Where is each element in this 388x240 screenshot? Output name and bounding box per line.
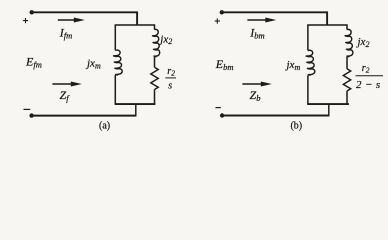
plus polarity mark (circuit b) [215,18,220,23]
node A1 (top-left terminal dot, circuit a) [30,10,34,14]
node A2 (bottom-left terminal dot, circuit a) [29,113,33,117]
wire right branch lower (circuit b) [346,91,348,104]
current arrow I_fm [58,18,85,23]
wire drop from rail to bottom wire (circuit a) [135,104,137,115]
wire left branch upper (circuit a) [114,25,116,50]
minus polarity mark (circuit b) [216,107,221,109]
svg-text:s: s [168,81,172,92]
plus polarity mark (circuit a) [23,18,28,23]
wire bottom (circuit b) [222,115,329,117]
inductor jx_2 (circuit b) [345,29,353,56]
wire top (circuit a): terminal to right corner, down to rail [32,12,137,25]
resistor r_2/s (circuit a) [151,67,158,89]
wire top (circuit b): terminal to right corner, down to rail [222,12,327,25]
svg-text:(a): (a) [99,120,110,131]
wire right branch top stub (circuit a) [154,25,156,30]
wire top rail of parallel branches (circuit b) [307,24,348,26]
wire bottom rail of parallel branches (circuit a) [115,103,156,105]
inductor jx_m (circuit b) [306,50,315,75]
svg-text:2 − s: 2 − s [356,79,380,91]
current arrow I_bm [247,18,276,23]
impedance arrow Z_f [52,82,81,87]
wire left branch upper (circuit b) [307,25,309,51]
minus polarity mark (circuit a) [24,108,31,110]
wire drop from rail to bottom wire (circuit b) [328,104,330,115]
inductor jx_2 (circuit a) [153,29,160,56]
wire right branch middle stub (circuit a) [154,57,156,68]
svg-text:r2: r2 [362,63,370,75]
node B1 (top-left terminal dot, circuit b) [220,10,224,14]
wire top rail of parallel branches (circuit a) [115,24,156,26]
value label r_2/s fraction [165,66,176,92]
svg-text:(b): (b) [290,121,302,132]
wire right branch top stub (circuit b) [346,25,348,30]
wire left branch lower (circuit a) [114,75,116,104]
wire right branch middle stub (circuit b) [346,57,348,69]
impedance arrow Z_b [242,82,271,87]
resistor r_2/(2-s) (circuit b) [343,69,350,91]
node B2 (bottom-left terminal dot, circuit b) [220,113,224,117]
wire left branch lower (circuit b) [307,75,309,104]
wire bottom (circuit a) [32,115,137,117]
value label r_2/(2-s) fraction [356,63,384,91]
inductor jx_m (circuit a) [114,50,123,75]
wire bottom rail of parallel branches (circuit b) [307,103,349,105]
wire right branch lower (circuit a) [154,90,156,105]
svg-text:r2: r2 [167,66,175,78]
